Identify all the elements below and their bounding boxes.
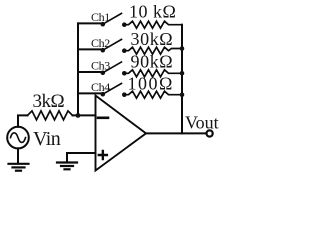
wire: 3kΩ to inverting input xyxy=(73,114,96,116)
svg-text:100Ω: 100Ω xyxy=(128,74,174,94)
switch Ch1 (open) xyxy=(101,13,127,27)
node: Ch3 resistor to bus junction xyxy=(180,71,185,76)
wire: Ch4 branch left segment xyxy=(78,92,101,94)
wire: op-amp output to Vout terminal xyxy=(146,132,206,134)
resistor 3kΩ xyxy=(28,111,73,120)
resistor 100Ω xyxy=(124,91,182,98)
svg-text:Ch3: Ch3 xyxy=(91,59,110,73)
switch Ch4 (open) xyxy=(101,83,127,97)
svg-text:Ch4: Ch4 xyxy=(91,80,110,94)
wire: Ch3 branch left segment xyxy=(78,71,101,73)
ground (Vin source) xyxy=(9,148,29,170)
svg-text:30kΩ: 30kΩ xyxy=(131,29,174,49)
ground (op-amp non-inverting input) xyxy=(57,163,77,170)
switch Ch2 (open) xyxy=(101,39,127,53)
svg-text:Ch1: Ch1 xyxy=(91,10,110,24)
resistor 90kΩ xyxy=(124,70,182,77)
svg-text:Ch2: Ch2 xyxy=(91,36,110,50)
wire: right feedback bus down to output xyxy=(181,25,183,134)
op-amp U1 xyxy=(96,96,147,171)
switch Ch3 (open) xyxy=(101,62,127,76)
node: Ch2 resistor to bus junction xyxy=(180,46,185,51)
node: Ch4 resistor to bus junction xyxy=(180,92,185,97)
svg-text:Vin: Vin xyxy=(33,128,61,150)
svg-text:3kΩ: 3kΩ xyxy=(33,91,65,112)
resistor 10 kΩ xyxy=(124,21,182,28)
node: inverting input junction xyxy=(76,113,81,118)
wire: non-inverting input to ground xyxy=(67,153,96,162)
wire: Ch2 branch left segment xyxy=(78,48,101,50)
wire: Ch1 branch left segment xyxy=(78,22,101,24)
resistor 30kΩ xyxy=(124,47,182,54)
svg-text:Vout: Vout xyxy=(185,113,219,133)
wire: Vin top to input resistor xyxy=(18,115,28,126)
wire: left feedback bus (inverting node up to Ch1 branch) xyxy=(77,23,79,115)
svg-text:90kΩ: 90kΩ xyxy=(131,51,174,71)
voltage source Vin xyxy=(7,127,29,149)
svg-text:10 kΩ: 10 kΩ xyxy=(129,2,176,22)
terminal Vout xyxy=(207,130,213,136)
